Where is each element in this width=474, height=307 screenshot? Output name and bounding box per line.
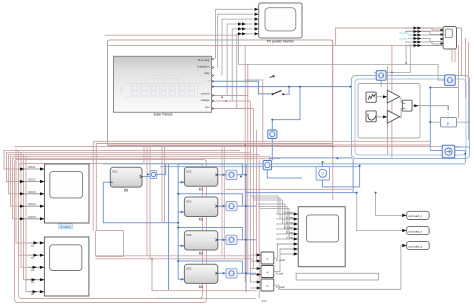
wire out.load_v feed bbox=[357, 193, 402, 231]
wire verticals left-mid bbox=[93, 140, 430, 142]
sensor current small blue bbox=[263, 161, 272, 170]
area box mppt blue outer bbox=[352, 76, 470, 159]
wire verticals x386 x389 bbox=[387, 66, 389, 155]
converter M4 bbox=[226, 269, 237, 278]
svg-text:Irradiation: Irradiation bbox=[197, 65, 210, 69]
wire blue y119 bbox=[271, 139, 273, 161]
solar panels subsystem bbox=[114, 56, 214, 116]
wire M2 loop bbox=[178, 194, 246, 212]
battery module M3 bbox=[184, 231, 217, 256]
wire y143 from P sensor bbox=[245, 80, 263, 144]
svg-text:V: V bbox=[321, 171, 324, 176]
wire battery bus left bbox=[177, 164, 179, 279]
battery module M1 bbox=[184, 167, 217, 191]
converter A top bbox=[376, 71, 386, 81]
area box small mid-left bbox=[96, 231, 124, 257]
voltage sensor block bbox=[316, 167, 329, 180]
wire M3 loop bbox=[178, 228, 246, 246]
product P_bat bbox=[250, 266, 283, 278]
tr scope wires bbox=[405, 28, 443, 46]
svg-text:M3: M3 bbox=[199, 251, 204, 255]
outport out.load_v bbox=[402, 226, 429, 234]
wire switch out bbox=[284, 87, 289, 95]
svg-text:out.load_v: out.load_v bbox=[408, 229, 422, 233]
scope a (currents) bbox=[26, 237, 89, 296]
svg-text:P_load: P_load bbox=[276, 285, 285, 289]
sensor P small blue bbox=[268, 130, 277, 139]
load scope input stub wires bbox=[276, 214, 294, 254]
scope top-right bbox=[399, 27, 457, 50]
wire battery out bus bbox=[246, 164, 256, 292]
converter M1 bbox=[226, 170, 237, 179]
minmax wires bbox=[376, 97, 448, 118]
svg-text:SOC1: SOC1 bbox=[28, 165, 36, 169]
wire v sensor out bbox=[323, 166, 360, 187]
svg-text:M1: M1 bbox=[199, 188, 204, 192]
wire solar outputs right salmon bbox=[212, 95, 248, 97]
svg-text:Time step: Time step bbox=[197, 58, 210, 62]
product P_solar bbox=[250, 252, 285, 264]
area box mppt blue inner bbox=[355, 79, 466, 155]
wire mid verticals below solar bbox=[143, 147, 145, 163]
converter M2 bbox=[226, 202, 237, 211]
wire monitor row2 bbox=[218, 14, 253, 67]
svg-text:SOC5: SOC5 bbox=[28, 215, 36, 219]
area box left scopes inner bbox=[19, 164, 203, 299]
wire M5 to conv5 bbox=[142, 176, 150, 178]
SOC port wires and labels bbox=[18, 169, 44, 219]
wire bottom P_load input loop bbox=[152, 259, 257, 291]
converter M3 bbox=[226, 235, 237, 244]
wire M1 loop bbox=[178, 164, 246, 182]
wire products to scope lower ports bbox=[274, 244, 294, 258]
wire blue y94.5 bbox=[212, 86, 350, 88]
wire top long feedback row1 bbox=[105, 34, 239, 36]
product P_load bbox=[250, 279, 285, 303]
svg-text:SOC4: SOC4 bbox=[28, 202, 36, 206]
wire current sensor out down bbox=[267, 170, 302, 178]
svg-text:M4: M4 bbox=[199, 285, 204, 289]
outport out.load_p bbox=[402, 241, 429, 249]
wire loop below scope bbox=[296, 273, 378, 280]
wire bottom SOC arrow bbox=[157, 298, 256, 300]
battery module M5 bbox=[110, 167, 142, 192]
battery charge p block bbox=[430, 106, 469, 127]
wire main blue bus y88 bbox=[212, 81, 272, 94]
wire teal long y163.5 bbox=[103, 163, 465, 165]
svg-text:SOC: SOC bbox=[262, 299, 268, 303]
wire convA stub bbox=[381, 80, 458, 150]
minmax block bbox=[402, 100, 412, 111]
wire monitor row3 bbox=[222, 19, 253, 75]
svg-text:P_bat: P_bat bbox=[276, 271, 283, 275]
area box gain cluster gray bbox=[358, 84, 420, 139]
wire right edge verticals bbox=[458, 45, 460, 118]
scope PV panels monitor bbox=[238, 3, 302, 44]
gain 1 bbox=[387, 90, 399, 103]
svg-text:Solar Panels: Solar Panels bbox=[153, 112, 173, 116]
svg-text:SOC: SOC bbox=[112, 170, 118, 174]
electrical source block bottom bbox=[442, 145, 455, 158]
svg-text:out.load_p: out.load_p bbox=[408, 244, 422, 248]
battery module M4 bbox=[184, 264, 217, 289]
wire monitor row1 bbox=[216, 9, 253, 59]
wire monitor row4 bbox=[227, 24, 253, 96]
outport out.load_c bbox=[402, 211, 429, 219]
wire vertical x332.8 bbox=[332, 40, 334, 200]
monitor input arrowheads bbox=[238, 8, 259, 36]
area box left scopes outer bbox=[15, 160, 207, 303]
battery module M2 bbox=[184, 197, 217, 222]
scope SOC bbox=[18, 164, 89, 229]
svg-text:M5: M5 bbox=[124, 189, 129, 193]
wire out.load_p feed bbox=[274, 246, 402, 290]
svg-text:soc: soc bbox=[205, 105, 210, 109]
lookup table 1 bbox=[366, 92, 376, 102]
wire left bundle to a scope bbox=[16, 149, 38, 243]
wire left bundle to SOC scope bbox=[4, 151, 240, 169]
svg-text:out.load_c: out.load_c bbox=[408, 214, 422, 218]
svg-text:SOC2: SOC2 bbox=[28, 178, 36, 182]
converter B top-right bbox=[445, 75, 456, 86]
wire center vertical bundle lower bbox=[244, 45, 246, 282]
svg-text:Scoped: Scoped bbox=[60, 225, 71, 229]
area box solar panels group bbox=[108, 40, 333, 146]
load scope big bbox=[276, 207, 345, 267]
svg-text:voltage: voltage bbox=[200, 98, 209, 102]
svg-text:current: current bbox=[201, 92, 210, 96]
svg-text:M2: M2 bbox=[199, 218, 204, 222]
gain 2 bbox=[387, 110, 399, 123]
wire monitor row6 bbox=[237, 34, 253, 109]
svg-text:<I_PV>: <I_PV> bbox=[399, 37, 408, 41]
svg-text:Day: Day bbox=[205, 71, 211, 75]
svg-text:SOC: SOC bbox=[186, 267, 192, 271]
converter M5 bbox=[150, 171, 157, 179]
svg-text:PV panels monitor: PV panels monitor bbox=[267, 40, 295, 44]
wire mid horizontals y189/y193 bbox=[225, 188, 352, 190]
wires around p block bbox=[430, 147, 469, 163]
tr scope arrows bbox=[414, 27, 445, 48]
wire out.load_c feed bbox=[376, 193, 402, 216]
svg-text:SOC: SOC bbox=[186, 199, 192, 203]
wires blue bbox=[103, 81, 465, 292]
wire top right feedback rows bbox=[336, 28, 462, 75]
wire M4 loop bbox=[178, 261, 246, 279]
svg-text:P_solar: P_solar bbox=[276, 258, 285, 262]
lookup table 2 bbox=[366, 111, 376, 122]
svg-text:SOC3: SOC3 bbox=[28, 190, 36, 194]
load scope input arrows bbox=[294, 212, 299, 255]
wire monitor row5 bbox=[232, 29, 253, 101]
svg-text:SOC: SOC bbox=[186, 233, 192, 237]
load scope signal labels bbox=[284, 210, 294, 239]
wire M5 input loop bbox=[103, 182, 178, 223]
svg-text:SOC: SOC bbox=[186, 170, 192, 174]
wire long horizontals mid y145 bbox=[108, 144, 431, 146]
wire v sensor top bbox=[322, 162, 324, 167]
manual switch bbox=[270, 75, 285, 95]
battery input arrows blue bbox=[110, 173, 226, 280]
svg-text:<V_PV>: <V_PV> bbox=[399, 31, 409, 35]
wire double mid-low y256/259 bbox=[96, 255, 251, 257]
wire teal y166.6 bbox=[160, 166, 360, 168]
